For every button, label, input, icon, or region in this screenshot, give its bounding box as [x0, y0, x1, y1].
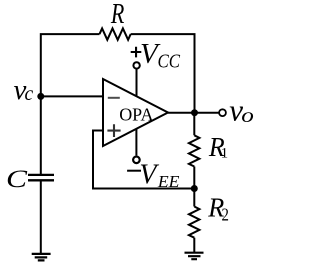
- svg-text:CC: CC: [158, 52, 181, 73]
- plus sign of +VCC: [131, 47, 142, 58]
- ground (right): [185, 253, 204, 260]
- wire: capacitor to ground: [40, 182, 42, 254]
- svg-text:2: 2: [222, 205, 229, 225]
- resistor R2: [189, 207, 200, 238]
- op-amp U1 triangle: [103, 79, 168, 146]
- wire: VCC terminal to op-amp top edge: [136, 69, 138, 96]
- wire: v_c to op-amp inverting input: [41, 95, 103, 97]
- svg-text:1: 1: [221, 145, 229, 161]
- feedback wire: junction to op-amp non-inverting input: [93, 131, 194, 189]
- ground (left): [32, 254, 51, 261]
- svg-text:V: V: [139, 159, 159, 190]
- resistor R: [100, 28, 131, 39]
- wire top-left: left vertical rail and top horizontal to resistor R: [41, 34, 100, 174]
- wire: output node to R1: [193, 113, 195, 136]
- wire: op-amp bottom edge to VEE terminal: [135, 129, 137, 155]
- wire: R2 to ground: [193, 238, 195, 252]
- VEE terminal circle: [133, 157, 140, 164]
- output junction node dot: [191, 109, 198, 116]
- resistor R1: [189, 135, 200, 166]
- VCC terminal circle: [133, 62, 139, 68]
- wire: op-amp output to terminal: [168, 112, 219, 114]
- svg-text:R: R: [110, 0, 124, 30]
- wire: resistor R to top-right corner, down to output node: [131, 34, 195, 113]
- node v_c junction dot: [37, 93, 44, 100]
- svg-text:C: C: [6, 166, 27, 193]
- op-amp minus sign: [108, 97, 120, 99]
- wire: R1 to junction: [193, 167, 195, 189]
- svg-text:OPA: OPA: [119, 105, 153, 125]
- svg-text:o: o: [241, 105, 254, 127]
- wire: junction to R2: [193, 189, 195, 207]
- capacitor C: [28, 175, 54, 180]
- output terminal circle: [219, 109, 226, 116]
- junction node dot R1/R2: [191, 185, 198, 192]
- svg-text:c: c: [25, 84, 34, 105]
- minus sign of -VEE: [127, 170, 141, 172]
- op-amp plus sign: [107, 124, 120, 137]
